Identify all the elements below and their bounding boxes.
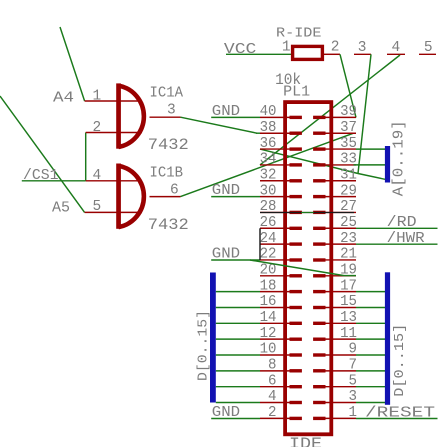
svg-text:16: 16 bbox=[260, 294, 277, 310]
svg-text:4: 4 bbox=[268, 389, 277, 405]
wire IC1A out to pin38 bbox=[181, 117, 258, 133]
svg-text:3: 3 bbox=[349, 389, 358, 405]
svg-text:1: 1 bbox=[93, 88, 102, 104]
svg-text:18: 18 bbox=[260, 278, 277, 294]
svg-text:12: 12 bbox=[260, 326, 277, 342]
wire pin35 to A bus bbox=[356, 148, 385, 150]
pin 18 bbox=[260, 291, 291, 293]
pin 28 bbox=[260, 211, 291, 213]
wire bbox=[85, 133, 87, 181]
svg-text:IC1A: IC1A bbox=[150, 86, 184, 102]
wire R pin4 to pin34 bbox=[260, 55, 400, 165]
wire pin33 to A bus bbox=[354, 164, 386, 166]
bus D[0..15] left bbox=[210, 273, 216, 403]
pin 39 bbox=[325, 116, 356, 118]
pin 1 bbox=[85, 100, 142, 102]
pin 22 bbox=[260, 259, 291, 261]
svg-text:39: 39 bbox=[340, 104, 357, 120]
pin 35 bbox=[325, 148, 356, 150]
wire GND bbox=[211, 259, 260, 261]
svg-text:2: 2 bbox=[331, 39, 340, 55]
svg-text:23: 23 bbox=[340, 231, 357, 247]
pin 33 bbox=[325, 164, 356, 166]
wire GND bbox=[211, 116, 260, 118]
wire D bus entry bbox=[216, 306, 260, 308]
pin 2 bbox=[260, 417, 291, 419]
svg-text:37: 37 bbox=[340, 120, 357, 136]
wire bbox=[0, 96, 85, 212]
svg-text:22: 22 bbox=[260, 247, 277, 263]
pin 9 bbox=[325, 354, 356, 356]
pin 34 bbox=[260, 164, 291, 166]
svg-text:36: 36 bbox=[260, 136, 277, 152]
pin 16 bbox=[260, 306, 291, 308]
svg-text:31: 31 bbox=[340, 167, 357, 183]
wire D bus entry bbox=[356, 354, 385, 356]
wire bbox=[60, 27, 85, 101]
svg-text:35: 35 bbox=[340, 136, 357, 152]
wire D bus entry bbox=[216, 322, 260, 324]
svg-text:25: 25 bbox=[340, 215, 357, 231]
pin 4 bbox=[86, 180, 142, 182]
bus D[0..15] right bbox=[385, 272, 390, 405]
svg-text:30: 30 bbox=[260, 183, 277, 199]
pin 20 bbox=[260, 275, 291, 277]
pin 3 bbox=[325, 402, 356, 404]
wire bbox=[22, 180, 86, 182]
svg-text:7: 7 bbox=[349, 358, 358, 374]
svg-text:20: 20 bbox=[260, 263, 277, 279]
pin 4 bbox=[387, 53, 405, 55]
wire D bus entry bbox=[216, 386, 260, 388]
svg-text:4: 4 bbox=[93, 168, 102, 184]
wire VCC to R1 pin1 bbox=[226, 53, 291, 55]
pin 38 bbox=[260, 132, 291, 134]
pin 37 bbox=[325, 132, 356, 134]
svg-text:29: 29 bbox=[340, 183, 357, 199]
pin 31 bbox=[325, 180, 356, 182]
wire R pin2 to pin39 bbox=[340, 54, 356, 117]
svg-text:IDE: IDE bbox=[289, 435, 322, 447]
svg-text:IC1B: IC1B bbox=[150, 166, 184, 182]
wire D bus entry bbox=[356, 338, 385, 340]
svg-text:6: 6 bbox=[268, 373, 277, 389]
pin 15 bbox=[325, 306, 356, 308]
wire D bus entry bbox=[216, 354, 260, 356]
wire D bus entry bbox=[216, 370, 260, 372]
pin 7 bbox=[325, 370, 356, 372]
svg-text:11: 11 bbox=[340, 326, 357, 342]
pin 13 bbox=[325, 322, 356, 324]
svg-text:2: 2 bbox=[93, 120, 102, 136]
bus A[0..19] bbox=[385, 146, 390, 183]
svg-text:26: 26 bbox=[260, 215, 277, 231]
wire D bus entry bbox=[216, 291, 260, 293]
pin 36 bbox=[260, 148, 291, 150]
pin 2 bbox=[86, 132, 142, 134]
svg-text:32: 32 bbox=[260, 167, 277, 183]
svg-text:4: 4 bbox=[392, 40, 401, 56]
svg-text:5: 5 bbox=[93, 199, 102, 215]
pin 19 bbox=[325, 275, 356, 277]
svg-text:A4: A4 bbox=[53, 91, 74, 107]
svg-text:1: 1 bbox=[282, 39, 291, 55]
wire R pin3 down to A-bus junction bbox=[358, 54, 371, 173]
pin 14 bbox=[260, 322, 291, 324]
svg-text:5: 5 bbox=[424, 40, 433, 56]
pin 21 bbox=[325, 259, 356, 261]
svg-text:5: 5 bbox=[349, 373, 358, 389]
wire tie pins 26-24 to GND bbox=[259, 228, 261, 260]
wire D bus entry bbox=[356, 370, 385, 372]
pin 5 bbox=[325, 386, 356, 388]
pin 10 bbox=[260, 354, 291, 356]
svg-text:24: 24 bbox=[260, 231, 277, 247]
pin 1 bbox=[325, 417, 356, 419]
pin 8 bbox=[260, 370, 291, 372]
pin 5 bbox=[85, 211, 142, 213]
wire D bus entry bbox=[356, 402, 385, 404]
gate IC1B (7432 OR) body bbox=[119, 166, 144, 227]
pin 12 bbox=[260, 338, 291, 340]
svg-text:/RESET: /RESET bbox=[365, 405, 435, 422]
wire /HWR bbox=[356, 243, 438, 245]
wire D bus entry bbox=[356, 291, 385, 293]
pin 30 bbox=[260, 196, 291, 198]
wire /RESET bbox=[356, 418, 438, 420]
pin 6 bbox=[260, 386, 291, 388]
pin 4 bbox=[260, 402, 291, 404]
svg-text:3: 3 bbox=[358, 40, 367, 56]
pin 26 bbox=[260, 227, 291, 229]
svg-text:9: 9 bbox=[349, 342, 358, 358]
resistor R-IDE body bbox=[293, 46, 323, 59]
svg-text:VCC: VCC bbox=[224, 42, 257, 58]
svg-text:1: 1 bbox=[349, 405, 358, 421]
pin 2 bbox=[324, 53, 340, 55]
svg-text:A5: A5 bbox=[52, 201, 70, 217]
wire IC1B out to pin37 bbox=[181, 133, 354, 196]
svg-text:38: 38 bbox=[260, 120, 277, 136]
svg-text:15: 15 bbox=[340, 294, 357, 310]
svg-text:34: 34 bbox=[260, 152, 277, 168]
wire D bus entry bbox=[216, 402, 260, 404]
pin 5 bbox=[419, 53, 436, 55]
pin 6 bbox=[150, 196, 181, 198]
svg-text:D[0..15]: D[0..15] bbox=[197, 310, 212, 381]
svg-text:17: 17 bbox=[340, 278, 357, 294]
svg-text:13: 13 bbox=[340, 310, 357, 326]
pin 32 bbox=[260, 180, 291, 182]
wire GND22 branch to pin 19 bbox=[250, 260, 344, 276]
svg-text:A[0..19]: A[0..19] bbox=[391, 120, 407, 196]
svg-text:7432: 7432 bbox=[148, 136, 189, 154]
svg-text:PL1: PL1 bbox=[283, 84, 310, 100]
pin 17 bbox=[325, 291, 356, 293]
svg-text:/HWR: /HWR bbox=[387, 231, 425, 247]
pin 3 bbox=[150, 116, 181, 118]
pin 23 bbox=[325, 243, 356, 245]
svg-text:6: 6 bbox=[170, 183, 179, 199]
pin 3 bbox=[354, 53, 371, 55]
svg-text:7432: 7432 bbox=[148, 216, 189, 234]
connector PL1 body bbox=[285, 102, 331, 434]
svg-text:21: 21 bbox=[340, 247, 357, 263]
pin 24 bbox=[260, 243, 291, 245]
svg-text:/CS1: /CS1 bbox=[23, 168, 59, 184]
svg-text:10: 10 bbox=[260, 342, 277, 358]
svg-text:2: 2 bbox=[268, 405, 277, 421]
pin 29 bbox=[325, 196, 356, 198]
wire pin36 to A-bus bottom junction bbox=[260, 149, 358, 173]
gate IC1A (7432 OR) body bbox=[119, 86, 144, 147]
svg-text:3: 3 bbox=[167, 103, 176, 119]
wire GND bbox=[211, 196, 260, 198]
wire GND bbox=[211, 418, 260, 420]
svg-text:/RD: /RD bbox=[387, 215, 417, 231]
wire D bus entry bbox=[216, 338, 260, 340]
svg-text:8: 8 bbox=[268, 358, 277, 374]
wire pin28 to pin27 bbox=[260, 212, 354, 214]
pin 27 bbox=[325, 211, 356, 213]
pin 40 bbox=[260, 116, 291, 118]
pin 25 bbox=[325, 227, 356, 229]
svg-text:14: 14 bbox=[260, 310, 277, 326]
pin 11 bbox=[325, 338, 356, 340]
svg-text:D[0..15]: D[0..15] bbox=[393, 324, 408, 397]
wire D bus entry bbox=[356, 322, 385, 324]
wire /RD bbox=[356, 227, 438, 229]
wire D bus entry bbox=[356, 386, 385, 388]
wire D bus entry bbox=[356, 306, 385, 308]
svg-text:40: 40 bbox=[260, 104, 277, 120]
